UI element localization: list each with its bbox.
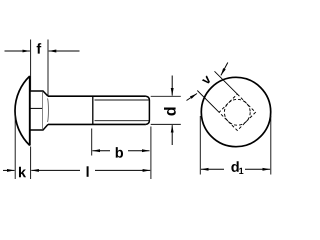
dimension b left arrow (92, 150, 110, 152)
dimension b left extension line (91, 129, 93, 156)
dimension d top extension line (151, 95, 181, 97)
dimension b right arrow (128, 150, 150, 152)
dimension d top arrow (171, 76, 173, 96)
square neck top edge (30, 91, 48, 96)
label k (19, 167, 26, 178)
dimension v upper arrow (221, 63, 228, 76)
bolt head bearing face (29, 76, 31, 146)
dimension k right arrow / l left arrow and line (31, 169, 80, 171)
dimension f left arrow (5, 50, 30, 52)
hidden square neck (dashed) (219, 94, 255, 130)
label b (116, 147, 123, 158)
dimension d bottom arrow (171, 125, 173, 145)
dimension l right line and arrow (95, 169, 150, 171)
label v (202, 75, 210, 83)
square neck middle corner line (30, 107, 43, 109)
thread start line (92, 96, 94, 124)
dimension v extension line upper (215, 71, 238, 94)
thread root top line (95, 99, 149, 101)
thread root bottom line (95, 120, 149, 122)
dimension f right arrow (49, 50, 80, 52)
neck runout curve (47, 98, 50, 122)
dimension f extension line left (30, 40, 32, 92)
dimension d bottom extension line (151, 123, 181, 125)
dimension d1 left extension line (199, 116, 201, 175)
dimension k/l shared extension line (30, 147, 32, 180)
square neck bottom edge (30, 124, 48, 130)
label d (164, 107, 176, 115)
label l (87, 166, 89, 177)
shank bottom edge (48, 123, 146, 125)
dimension d1 left arrow (201, 168, 224, 170)
dimension v extension line lower (197, 91, 219, 113)
dimension v lower arrow (187, 94, 198, 101)
bolt end face with chamfer (146, 96, 150, 124)
head front view circle (201, 77, 270, 146)
label d1 (231, 161, 238, 172)
dimension k left arrow (3, 169, 15, 171)
shank top edge (48, 95, 146, 97)
dimension l right extension line (150, 127, 152, 180)
bolt head dome (15, 76, 30, 146)
dimension d1 right extension line (270, 116, 272, 175)
dimension k extension line left (14, 113, 16, 180)
dimension d1 right arrow (245, 168, 270, 170)
square neck end edge (42, 92, 44, 130)
dimension f extension line right (47, 40, 49, 96)
hidden shank circle (dashed) (224, 99, 250, 125)
label f (37, 43, 42, 54)
